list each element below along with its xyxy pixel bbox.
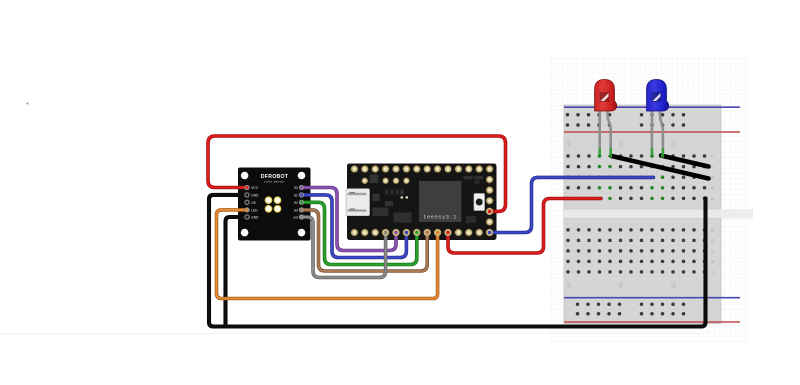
svg-text:GND: GND [251,194,259,198]
svg-text:S1: S1 [294,194,298,198]
svg-text:G: G [710,186,716,190]
svg-text:out: out [293,216,298,220]
svg-text:S3: S3 [294,209,298,213]
svg-text:50: 50 [567,141,573,147]
svg-text:S2: S2 [294,201,298,205]
svg-text:F: F [710,197,716,200]
svg-text:color sensor: color sensor [264,180,285,184]
svg-text:DFROBOT: DFROBOT [261,174,289,180]
svg-text:E: E [710,229,716,232]
svg-text:D: D [710,238,716,242]
svg-text:LED: LED [251,209,258,213]
svg-text:I: I [710,167,716,168]
svg-text:VCC: VCC [251,186,258,190]
svg-text:55: 55 [619,282,625,288]
svg-text:teensy3.1: teensy3.1 [423,213,457,220]
svg-text:C: C [710,249,716,253]
svg-text:55: 55 [619,141,625,147]
svg-text:S0: S0 [294,186,298,190]
svg-text:H: H [710,175,716,179]
svg-text:OE: OE [251,201,256,205]
svg-text:60: 60 [672,141,678,147]
svg-text:50: 50 [567,282,573,288]
svg-text:60: 60 [672,282,678,288]
svg-text:B: B [710,260,716,263]
svg-text:GND: GND [251,216,259,220]
